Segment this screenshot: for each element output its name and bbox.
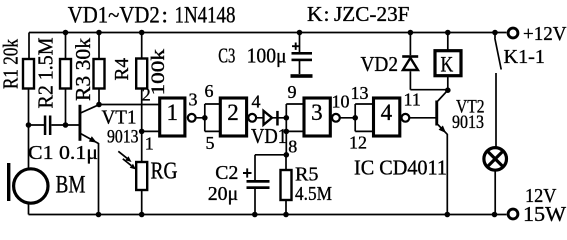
svg-text:12: 12 — [349, 133, 367, 153]
svg-text:15W: 15W — [523, 202, 567, 226]
svg-text:9013: 9013 — [107, 126, 139, 147]
svg-text:4: 4 — [252, 92, 261, 112]
svg-text:1N4148: 1N4148 — [175, 3, 236, 28]
svg-text:4.5M: 4.5M — [295, 183, 332, 205]
svg-text:VD1~VD2: VD1~VD2 — [68, 3, 160, 28]
svg-text:IC CD4011: IC CD4011 — [354, 155, 447, 179]
svg-text:2: 2 — [227, 100, 239, 125]
svg-text:4: 4 — [381, 100, 393, 125]
svg-text:C1 0.1μ: C1 0.1μ — [28, 143, 98, 164]
svg-text:3: 3 — [189, 90, 198, 110]
svg-text:9: 9 — [288, 82, 297, 102]
svg-text:5: 5 — [206, 133, 215, 153]
svg-text:JZC-23F: JZC-23F — [334, 2, 410, 26]
svg-text:C2: C2 — [215, 162, 238, 184]
svg-text:8: 8 — [288, 137, 297, 157]
svg-text:20μ: 20μ — [208, 183, 239, 205]
svg-text:R4: R4 — [112, 58, 133, 81]
svg-text:100μ: 100μ — [247, 44, 287, 68]
svg-text:10: 10 — [332, 92, 350, 112]
svg-text::: : — [162, 3, 168, 28]
svg-text:1: 1 — [167, 100, 179, 125]
svg-text:RG: RG — [151, 159, 178, 185]
svg-text:1: 1 — [145, 134, 154, 154]
svg-text:100k: 100k — [148, 48, 169, 95]
svg-text:VT1: VT1 — [102, 106, 137, 128]
svg-text:9013: 9013 — [452, 113, 484, 133]
svg-text:11: 11 — [404, 90, 421, 110]
svg-text:K: K — [307, 2, 323, 26]
svg-text:R3 30k: R3 30k — [71, 37, 95, 101]
svg-text:BM: BM — [56, 172, 86, 199]
svg-text:VD2: VD2 — [361, 52, 399, 76]
svg-text:3: 3 — [311, 100, 323, 125]
svg-text:6: 6 — [205, 81, 214, 101]
svg-text:R2 1.5M: R2 1.5M — [34, 37, 58, 108]
svg-text:C3: C3 — [218, 44, 235, 68]
svg-text:+12V: +12V — [523, 23, 567, 45]
svg-text::: : — [324, 2, 330, 26]
svg-text:13: 13 — [351, 83, 369, 103]
svg-text:K1-1: K1-1 — [504, 46, 546, 68]
svg-text:K: K — [441, 53, 454, 77]
svg-text:R1 20k: R1 20k — [0, 39, 23, 89]
svg-text:VD1: VD1 — [251, 124, 287, 148]
